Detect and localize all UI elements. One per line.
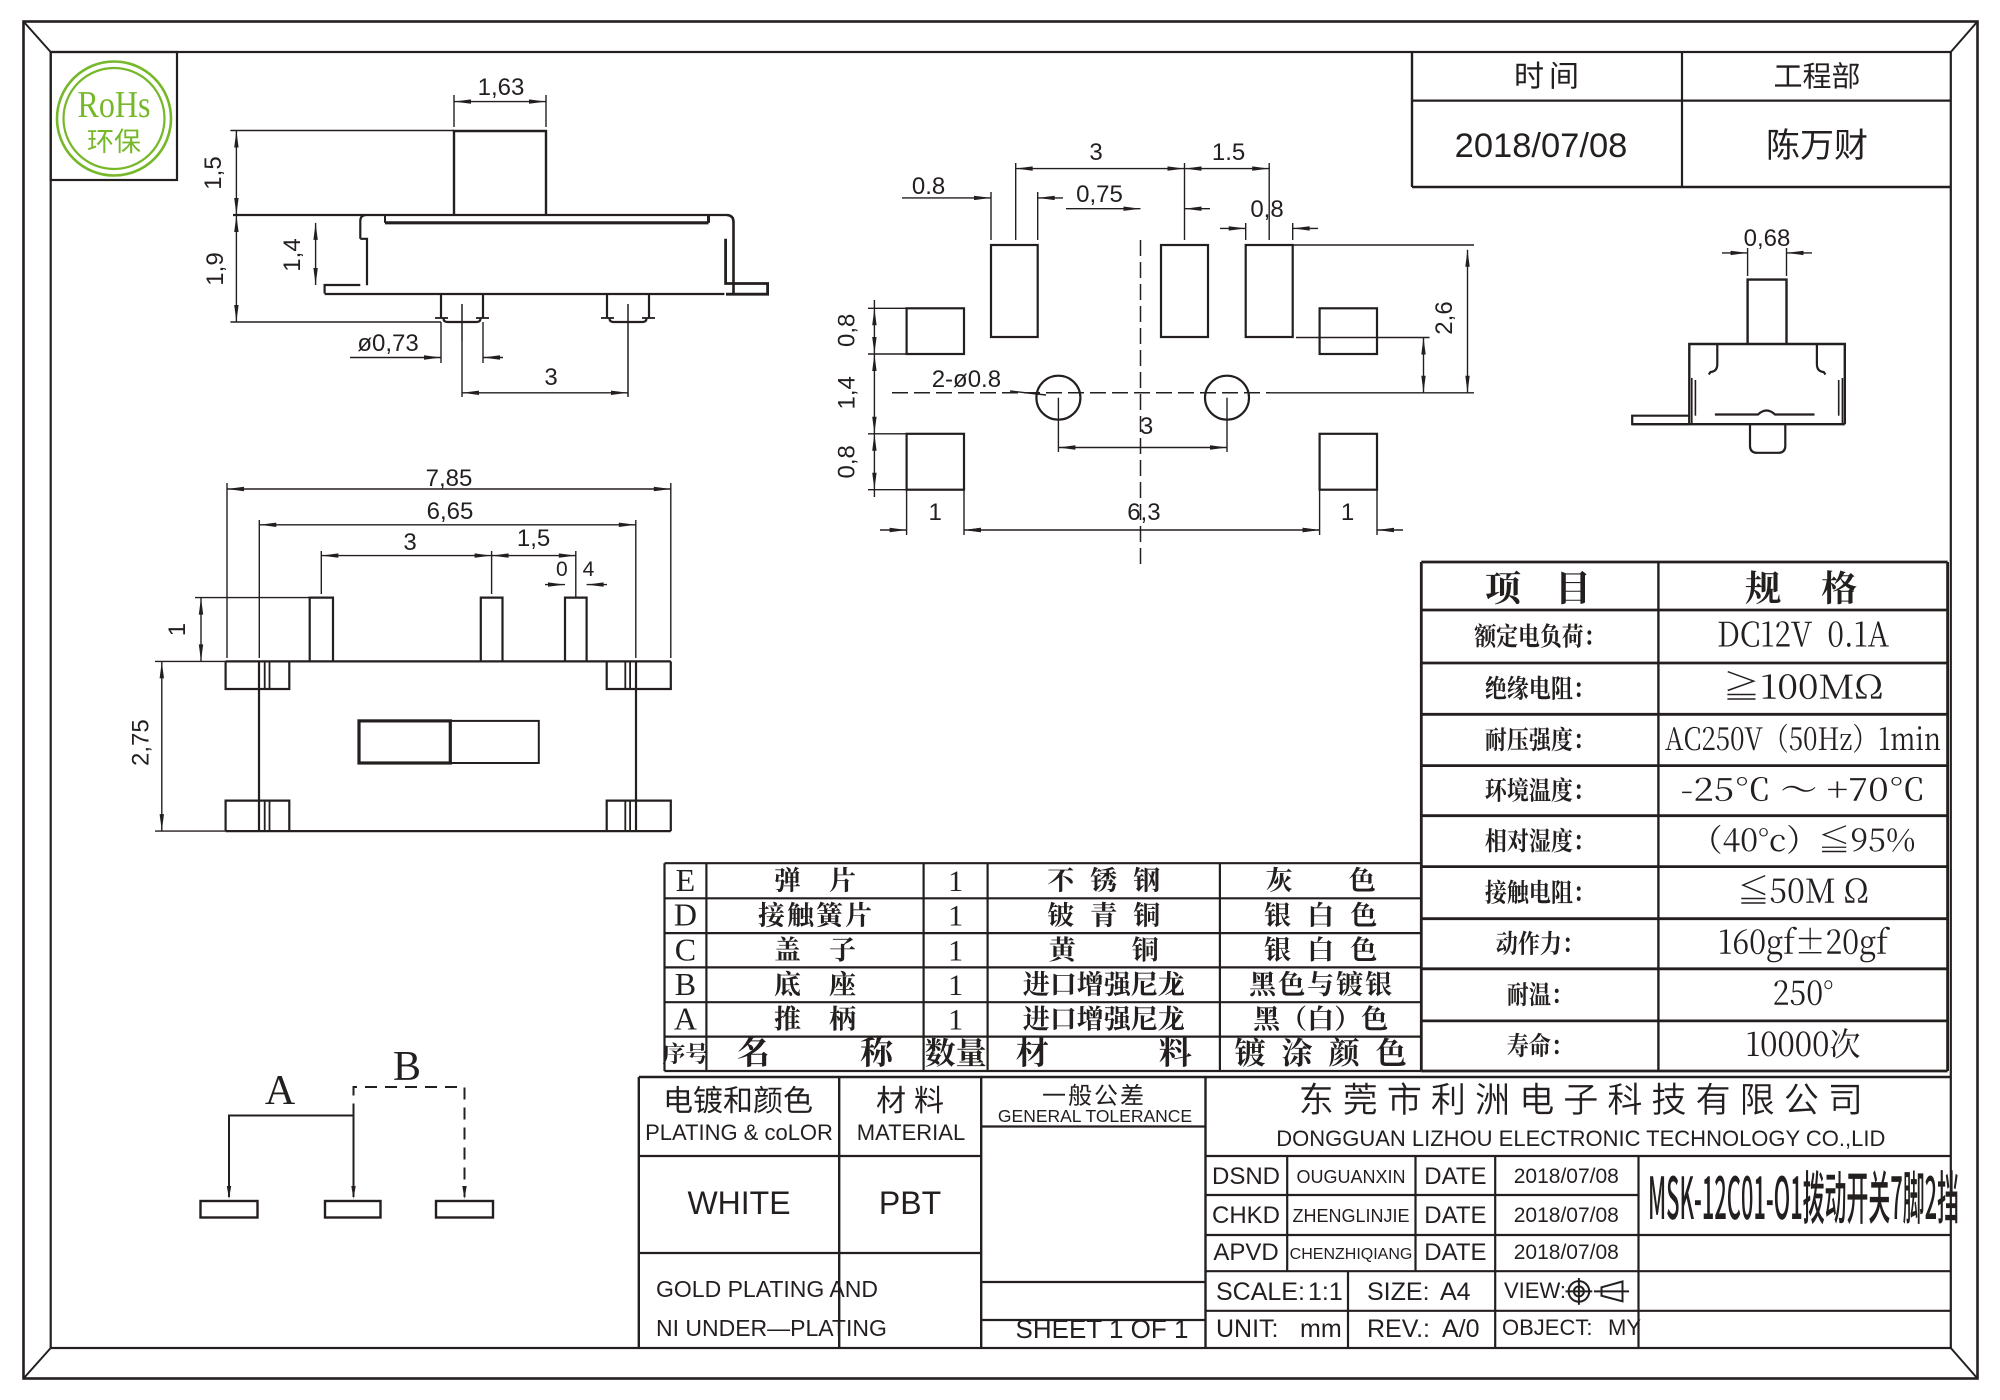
top view dimension 2,75 line — [161, 661, 163, 831]
svg-text:0,8: 0,8 — [1250, 196, 1283, 223]
side view body outline — [1689, 344, 1845, 424]
parts table row A name — [775, 1005, 856, 1031]
pcb small vertical dimension (pad to centerline) — [1423, 338, 1425, 393]
top view top-right lug — [607, 661, 671, 689]
schematic terminal pad 3 — [436, 1201, 493, 1218]
parts table header 名称 — [738, 1036, 893, 1067]
front view right pin collar ticks — [601, 317, 614, 319]
title block part number MSK-12C01-O1拨动开关7脚2挡 — [1650, 1170, 1958, 1224]
svg-text:PLATING & coLOR: PLATING & coLOR — [645, 1120, 833, 1145]
specs value DC12V 0.1A — [1719, 621, 1889, 647]
schematic solid wire A — [229, 1116, 354, 1198]
svg-text:1: 1 — [948, 865, 963, 898]
side view top-left notch — [1709, 344, 1718, 375]
pcb dimension 0.8 top-left extensions — [990, 192, 992, 240]
parts table row D material — [1048, 902, 1160, 927]
pcb dimension 1 bottom-left extension — [906, 490, 908, 535]
svg-text:C: C — [675, 931, 696, 967]
svg-text:1,5: 1,5 — [200, 156, 227, 189]
specs header 项目 — [1486, 571, 1520, 605]
side view top-right notch — [1817, 344, 1826, 375]
title block VIEW target symbol — [1569, 1281, 1590, 1302]
svg-text:DONGGUAN LIZHOU ELECTRONIC TEC: DONGGUAN LIZHOU ELECTRONIC TECHNOLOGY CO… — [1276, 1126, 1885, 1151]
svg-text:A4: A4 — [1440, 1278, 1471, 1306]
specs label 环境温度： — [1485, 777, 1580, 802]
svg-text:WHITE: WHITE — [687, 1185, 790, 1221]
top view dimension 7,85 extension lines — [226, 483, 228, 658]
specs label 绝缘电阻： — [1486, 676, 1581, 701]
parts table row D name — [759, 902, 872, 928]
title block vertical dividers — [638, 1077, 640, 1348]
svg-text:PBT: PBT — [879, 1185, 941, 1221]
parts table header 材料 — [1016, 1036, 1191, 1067]
front view left mounting lug — [325, 285, 361, 294]
parts table header 镀涂颜色 — [1235, 1037, 1405, 1066]
dimension 0,73 leader line — [350, 357, 441, 359]
top view body right edge — [635, 661, 637, 831]
title block left header row line — [639, 1155, 981, 1157]
top view dimension 6,65 extension lines — [258, 520, 260, 658]
pcb pad middle right — [1320, 308, 1377, 354]
svg-text:0: 0 — [556, 558, 568, 581]
pcb hole circle 2 — [1205, 376, 1249, 420]
title block WHITE row line — [639, 1252, 981, 1254]
side view right inner wall lines — [1841, 378, 1843, 423]
svg-text:1: 1 — [164, 623, 191, 636]
title block CHKD row line — [1206, 1234, 1951, 1236]
svg-text:SCALE:: SCALE: — [1216, 1278, 1305, 1306]
parts table row B name — [775, 971, 856, 997]
top view pin 3 — [565, 598, 587, 662]
svg-text:CHENZHIQIANG: CHENZHIQIANG — [1290, 1246, 1413, 1263]
pcb hole circle 1 — [1036, 376, 1080, 420]
front view cover front fold edge (thick) — [385, 221, 709, 224]
svg-text:A/0: A/0 — [1442, 1315, 1480, 1343]
title block tolerance cell bottom line — [981, 1281, 1205, 1283]
info table header dept label — [1775, 62, 1859, 89]
dimension 1,63 extension lines — [453, 95, 455, 127]
svg-text:3: 3 — [1140, 413, 1153, 440]
title block DSND row line — [1206, 1194, 1639, 1196]
pcb dimension 0,75 line — [1066, 208, 1141, 210]
pcb dimension 0,8 top-right line — [1220, 227, 1246, 229]
svg-text:D: D — [674, 897, 697, 933]
parts table row A color — [1254, 1005, 1387, 1031]
dimension 3 front line — [462, 392, 628, 394]
svg-text:E: E — [676, 862, 696, 898]
svg-text:2018/07/08: 2018/07/08 — [1514, 1204, 1619, 1227]
top view pin3 centerline extension — [575, 551, 577, 598]
title block tolerance header line — [981, 1125, 1205, 1127]
pcb dimension 0,8 top-right extensions — [1245, 223, 1247, 240]
pcb pad top 2 — [1161, 245, 1208, 337]
top view body left edge — [258, 661, 260, 831]
svg-text:UNIT:: UNIT: — [1216, 1315, 1279, 1343]
pcb dimension 3 top extensions — [1015, 163, 1017, 240]
top view pin 2 — [481, 598, 503, 662]
pcb pad bottom right — [1320, 434, 1377, 490]
svg-text:A: A — [674, 1000, 697, 1036]
side view dimension 0,68 line — [1722, 252, 1748, 254]
top view dimension 6,65 line — [259, 524, 636, 526]
svg-text:GENERAL TOLERANCE: GENERAL TOLERANCE — [998, 1106, 1192, 1126]
front view body left edge — [360, 239, 367, 285]
side view knob — [1748, 280, 1787, 344]
svg-text:VIEW:: VIEW: — [1504, 1278, 1566, 1303]
svg-text:DATE: DATE — [1424, 1163, 1486, 1190]
specs value 10000次 — [1748, 1028, 1860, 1058]
info table grid — [1411, 52, 1413, 187]
svg-text:B: B — [393, 1044, 421, 1090]
specs value AC250V（50Hz）1min — [1665, 724, 1940, 753]
side view left inner wall lines — [1691, 378, 1693, 423]
pcb dimension 3 top line — [1016, 168, 1185, 170]
top view dimension 2,75 extensions — [155, 660, 226, 662]
pcb pad top 1 — [991, 245, 1038, 337]
svg-text:0,8: 0,8 — [834, 445, 861, 478]
pcb view right pad centerline extension — [1296, 337, 1430, 339]
RoHs logo box — [51, 52, 177, 180]
front view cover fold right vertical — [707, 216, 710, 223]
svg-text:2018/07/08: 2018/07/08 — [1455, 127, 1628, 165]
top view dimension 0,4 line and arrows — [545, 584, 565, 586]
pcb dimension 3 middle line — [1058, 447, 1227, 449]
svg-text:0,68: 0,68 — [1744, 225, 1791, 252]
dimension 0,73 extension lines — [440, 322, 442, 363]
specs label 耐压强度： — [1486, 727, 1581, 752]
svg-text:APVD: APVD — [1213, 1239, 1278, 1266]
svg-text:2018/07/08: 2018/07/08 — [1514, 1241, 1619, 1264]
specs label 额定电负荷： — [1475, 623, 1592, 648]
pcb dimension 6,3 line — [964, 529, 1320, 531]
specs header 规格 — [1746, 570, 1781, 604]
parts table grid — [665, 862, 1422, 864]
side view interior bottom contact line with spring bump — [1715, 411, 1815, 415]
svg-text:1,5: 1,5 — [517, 525, 550, 552]
title block company row line — [1206, 1155, 1951, 1157]
parts table header 序号 — [663, 1042, 708, 1064]
info table header time label — [1516, 62, 1576, 89]
front view body bottom line — [325, 293, 725, 295]
pcb dimension 1 bottom-right line — [1377, 529, 1403, 531]
dimension 3 front extension — [461, 341, 463, 397]
specs value 250° — [1774, 980, 1832, 1005]
pcb dimension 0.8 top-left line — [902, 197, 991, 199]
pcb label leader line — [1010, 391, 1046, 395]
dimension 1,5 line — [235, 131, 237, 216]
front view cover fold left vertical — [384, 215, 386, 223]
dimension 1,63 line — [454, 101, 546, 103]
top view pin 1 — [310, 598, 333, 662]
svg-text:6,3: 6,3 — [1127, 499, 1160, 526]
specs value ≧100MΩ — [1727, 671, 1881, 700]
top view top-left lug — [226, 661, 290, 689]
top view dimension 3 line — [321, 555, 491, 557]
front view right mounting lug — [726, 239, 768, 294]
top view dimension 1 line — [200, 598, 202, 662]
front view pin centerline left — [461, 304, 463, 341]
svg-text:1,4: 1,4 — [834, 376, 861, 409]
parts table row E material — [1048, 867, 1160, 892]
pcb pad top 3 — [1246, 245, 1293, 337]
svg-text:1,63: 1,63 — [478, 74, 525, 101]
svg-text:0.8: 0.8 — [912, 173, 945, 200]
front view cover left flap — [360, 215, 365, 239]
top view dimension 1 extension — [195, 597, 310, 599]
schematic terminal pad 2 — [325, 1201, 381, 1218]
svg-text:NI UNDER—PLATING: NI UNDER—PLATING — [656, 1315, 887, 1341]
RoHs logo inner circle — [64, 68, 165, 169]
title block VIEW cone symbol — [1602, 1282, 1623, 1302]
svg-text:2,75: 2,75 — [128, 719, 155, 766]
title block top edge — [639, 1076, 1951, 1078]
title block 材料 label — [877, 1086, 943, 1114]
svg-text:4: 4 — [583, 558, 595, 581]
svg-text:1,4: 1,4 — [279, 238, 306, 271]
svg-text:2018/07/08: 2018/07/08 — [1514, 1165, 1619, 1188]
RoHs logo outer circle — [57, 62, 171, 176]
top view dimension 7,85 line — [227, 488, 671, 490]
info table engineer name — [1769, 128, 1867, 160]
pcb dimension 1 bottom-left line — [880, 529, 907, 531]
RoHs logo chinese text — [88, 128, 141, 153]
pcb view vertical centerline (dashed) — [1140, 240, 1142, 567]
pcb dimension 2,6 line — [1467, 250, 1469, 393]
specs table grid — [1421, 561, 1947, 564]
svg-text:3: 3 — [544, 364, 557, 391]
svg-text:1.5: 1.5 — [1212, 139, 1245, 166]
parts table header 数量 — [925, 1038, 985, 1067]
dimension 1,9 extension bottom — [230, 321, 441, 323]
pcb view horizontal centerline (dashed) — [892, 392, 1270, 394]
svg-text:MATERIAL: MATERIAL — [857, 1120, 965, 1145]
parts table row C material — [1050, 936, 1159, 962]
svg-text:3: 3 — [403, 529, 416, 556]
top view body bottom edge — [226, 830, 671, 832]
pcb dimension 3 middle extensions — [1057, 398, 1059, 452]
svg-text:7,85: 7,85 — [426, 465, 473, 492]
front view right pin — [607, 294, 649, 322]
dimension 1,4 line — [315, 223, 317, 285]
svg-text:SHEET 1 OF 1: SHEET 1 OF 1 — [1016, 1314, 1189, 1344]
pcb dimension 6,3 extensions — [963, 490, 965, 535]
schematic dashed wire B — [354, 1087, 465, 1197]
parts table row D color — [1265, 902, 1377, 928]
top view dimension 1,5 line — [492, 555, 576, 557]
schematic terminal pad 1 — [201, 1201, 258, 1218]
svg-text:2-ø0.8: 2-ø0.8 — [932, 366, 1001, 393]
parts table row C color — [1265, 936, 1377, 962]
svg-text:1: 1 — [948, 900, 963, 933]
parts table row E color — [1267, 867, 1375, 892]
RoHs logo text — [78, 92, 149, 117]
title block company chinese name — [1301, 1082, 1859, 1115]
pcb dimension 2,6 top extension — [1293, 244, 1474, 246]
parts table row C name — [775, 936, 855, 961]
title block scale row dividers — [1347, 1271, 1349, 1348]
svg-text:0,8: 0,8 — [834, 314, 861, 347]
pcb left dimension extensions — [868, 307, 907, 309]
side view dimension 0,68 extensions — [1747, 248, 1749, 276]
svg-text:DATE: DATE — [1424, 1239, 1486, 1266]
front view pin centerline right — [627, 304, 629, 397]
svg-text:6,65: 6,65 — [427, 498, 474, 525]
pcb pad middle left — [907, 308, 964, 354]
parts table row B material — [1023, 971, 1184, 996]
svg-text:A: A — [265, 1068, 296, 1114]
specs label 相对湿度： — [1485, 828, 1581, 853]
specs value （40°c）≦95% — [1711, 825, 1914, 854]
title block SCALE row line — [1206, 1310, 1951, 1312]
svg-text:SIZE:: SIZE: — [1367, 1278, 1430, 1306]
svg-text:ZHENGLINJIE: ZHENGLINJIE — [1292, 1206, 1409, 1226]
pcb dimension 1.5 extension — [1268, 163, 1270, 240]
top view dimension 3 extension lines — [320, 551, 322, 594]
specs value 160gf±20gf — [1720, 927, 1890, 963]
svg-text:1: 1 — [948, 1003, 963, 1036]
specs label 寿命： — [1507, 1033, 1558, 1058]
top view bottom-right lug — [607, 801, 671, 832]
svg-text:0,75: 0,75 — [1076, 181, 1123, 208]
title block 电镀和颜色 label — [667, 1086, 812, 1114]
parts table row B color — [1250, 971, 1391, 997]
svg-text:2,6: 2,6 — [1431, 301, 1458, 334]
title block 一般公差 label — [1043, 1084, 1143, 1106]
svg-text:OUGUANXIN: OUGUANXIN — [1296, 1167, 1405, 1187]
specs value ≦50M Ω — [1741, 875, 1867, 904]
svg-text:1: 1 — [929, 499, 942, 526]
specs label 耐温： — [1508, 982, 1559, 1006]
svg-text:3: 3 — [1089, 139, 1102, 166]
pcb left dimension stack line — [873, 300, 875, 497]
parts table row A material — [1023, 1006, 1184, 1031]
side view bottom pin — [1750, 424, 1785, 453]
title block MSK cell left divider — [1637, 1156, 1639, 1348]
front view cover right corner and right wall — [727, 215, 734, 295]
specs label 动作力： — [1496, 931, 1569, 956]
title block sheet row line — [981, 1319, 1205, 1321]
front view left pin collar ticks — [435, 317, 448, 319]
top view slider window right half — [450, 721, 539, 763]
pcb dimension 1 bottom-right extension — [1376, 490, 1378, 535]
pcb dimension 1.5 top line — [1185, 168, 1270, 170]
side view bottom-left flange — [1632, 416, 1689, 425]
front view knob (推柄) — [454, 131, 546, 215]
svg-text:1:1: 1:1 — [1308, 1278, 1343, 1306]
specs value -25℃ ～ +70℃ — [1682, 777, 1922, 801]
pcb pad bottom left — [907, 434, 964, 490]
svg-text:GOLD PLATING AND: GOLD PLATING AND — [656, 1276, 878, 1302]
svg-text:OBJECT:: OBJECT: — [1502, 1315, 1592, 1340]
title block APVD row line — [1206, 1270, 1951, 1272]
title block name column dividers — [1286, 1156, 1288, 1271]
svg-text:DATE: DATE — [1424, 1202, 1486, 1229]
front view left pin — [441, 294, 483, 322]
top view bottom-left lug — [226, 801, 290, 832]
svg-text:B: B — [675, 966, 696, 1002]
svg-text:1: 1 — [948, 969, 963, 1002]
svg-text:ø0,73: ø0,73 — [357, 330, 418, 357]
top view body top edge — [226, 660, 671, 662]
svg-text:DSND: DSND — [1212, 1163, 1280, 1190]
front view cover top line — [233, 214, 727, 216]
parts table row E name — [775, 867, 855, 892]
svg-text:1: 1 — [948, 934, 963, 967]
dimension 1,5 extension top — [230, 130, 454, 132]
top view slider window left half (knob position) — [359, 721, 450, 763]
svg-text:1: 1 — [1341, 499, 1354, 526]
svg-text:MY: MY — [1608, 1315, 1641, 1340]
border corner bevel diagonals — [24, 22, 51, 53]
svg-text:REV.:: REV.: — [1367, 1315, 1430, 1343]
svg-text:mm: mm — [1300, 1315, 1342, 1343]
svg-text:CHKD: CHKD — [1212, 1202, 1280, 1229]
side view bottom edge — [1632, 423, 1845, 425]
svg-text:1,9: 1,9 — [202, 252, 229, 285]
dimension 1,9 line — [235, 215, 237, 322]
specs label 接触电阻： — [1485, 880, 1580, 905]
pcb view centerline solid extension right — [1270, 392, 1474, 394]
